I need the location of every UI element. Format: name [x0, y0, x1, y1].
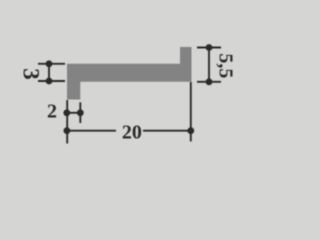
dimension 20 : dimension line right segment [143, 130, 191, 132]
dimension 20 : right extension line [190, 82, 192, 142]
Z-profile cross-section (gray) [67, 47, 192, 100]
dimension 3 : end dots [46, 60, 53, 67]
dimension 2 : right extension tick [79, 102, 81, 123]
dimension 2 : end dots [63, 109, 70, 116]
svg-text:2: 2 [47, 101, 57, 123]
dimension 5,5 : end dots [206, 44, 213, 51]
dimension 2 : dimension line [67, 112, 81, 114]
dimension 20 : dimension line left segment [67, 130, 116, 132]
dimension 3 : dimension line [48, 64, 50, 81]
dimension 2 : left extension line (shared with 20) [66, 100, 68, 144]
svg-text:5,5: 5,5 [215, 53, 237, 78]
dimension 3 : extension ticks [38, 63, 65, 65]
svg-text:20: 20 [122, 122, 142, 144]
svg-text:3: 3 [19, 68, 44, 80]
dimension 5,5 : dimension line [208, 48, 210, 82]
dimension 20 : end dots [64, 127, 71, 134]
dimension 5,5 : extension ticks [197, 47, 221, 49]
